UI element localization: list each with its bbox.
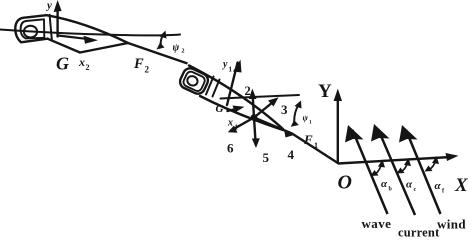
svg-text:F: F	[133, 56, 144, 72]
svg-text:y: y	[222, 59, 228, 70]
svg-text:1: 1	[235, 124, 239, 132]
Y axis	[337, 95, 339, 164]
towline F2	[128, 43, 188, 64]
x2 axis arrow shaft	[58, 36, 86, 39]
wind arrow	[406, 130, 441, 214]
svg-text:1: 1	[309, 120, 312, 126]
svg-text:2: 2	[245, 84, 251, 98]
svg-text:G: G	[216, 103, 224, 115]
towline F1 / arrow 4 shaft	[254, 118, 338, 164]
svg-text:O: O	[338, 172, 352, 194]
y1 arrowhead	[233, 60, 242, 73]
barge stern box	[15, 15, 47, 42]
svg-text:y: y	[45, 0, 52, 12]
angle alpha current marker	[402, 163, 408, 172]
x2 axis arrowhead	[84, 36, 99, 44]
y1 axis of tug	[227, 63, 238, 106]
svg-text:α: α	[435, 180, 442, 192]
svg-text:ψ: ψ	[173, 43, 180, 54]
angle alpha wave marker	[376, 164, 382, 174]
angle alpha wind marker	[430, 161, 436, 170]
G leader arrowhead	[233, 106, 245, 113]
svg-text:x: x	[78, 55, 85, 69]
tug hull bottom edge	[200, 96, 283, 130]
force arrow 2 shaft	[253, 93, 255, 118]
svg-text:f: f	[442, 189, 445, 195]
tug inner cabin	[182, 70, 206, 92]
svg-text:2: 2	[182, 49, 185, 55]
svg-text:x: x	[227, 118, 233, 129]
y2 axis of barge	[56, 5, 58, 37]
barge inner cabin	[21, 19, 45, 38]
svg-text:3: 3	[281, 102, 288, 117]
svg-text:α: α	[406, 179, 413, 191]
svg-text:5: 5	[263, 150, 270, 165]
svg-text:wave: wave	[362, 216, 392, 231]
force arrow 5 shaft	[254, 118, 256, 145]
G leader arrow shaft	[228, 108, 241, 111]
arrowhead 3	[268, 97, 279, 106]
svg-text:6: 6	[227, 141, 234, 156]
svg-text:F: F	[303, 132, 313, 147]
angle psi1 marker	[294, 104, 299, 122]
arrowhead 2	[249, 89, 257, 100]
arrowhead 4	[284, 130, 295, 138]
barge collar line	[50, 15, 52, 40]
X axis	[338, 157, 451, 164]
svg-text:2: 2	[145, 65, 150, 75]
tug stern box	[178, 66, 210, 96]
hub horizontal reference line	[221, 95, 300, 99]
tug hull vessel 1	[178, 63, 338, 164]
tug collar lines	[206, 77, 214, 95]
svg-text:c: c	[414, 187, 417, 193]
svg-text:G: G	[56, 54, 69, 74]
barge hull top edge	[47, 15, 129, 43]
force arrow 6 shaft	[231, 118, 254, 131]
tug porthole oval	[186, 74, 199, 87]
hub dot	[251, 114, 258, 121]
wire: barge axis reference line	[0, 30, 180, 36]
barge hull bottom edge	[48, 39, 129, 53]
svg-text:current: current	[398, 226, 440, 239]
arrowhead 5	[252, 138, 260, 148]
svg-text:α: α	[381, 178, 388, 190]
svg-text:b: b	[389, 187, 393, 193]
svg-text:wind: wind	[437, 217, 466, 232]
arrowhead 6	[228, 126, 238, 133]
current arrow	[378, 129, 415, 215]
svg-text:Y: Y	[318, 81, 332, 102]
angle psi2 marker	[161, 34, 164, 46]
svg-text:1: 1	[229, 66, 233, 74]
y2 axis arrowhead	[54, 0, 62, 12]
wave arrow	[353, 130, 388, 214]
svg-text:1: 1	[314, 141, 318, 150]
svg-text:4: 4	[288, 147, 295, 162]
svg-text:ψ: ψ	[303, 114, 309, 123]
svg-text:2: 2	[86, 63, 90, 72]
svg-text:X: X	[454, 175, 469, 196]
tug hull top edge	[189, 66, 283, 130]
force arrow 3 shaft	[254, 100, 276, 118]
barge deckhouse dome	[24, 26, 37, 38]
